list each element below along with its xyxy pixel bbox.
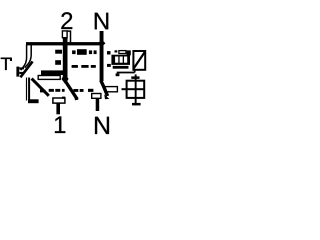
contact pad N lower [92, 94, 101, 99]
linkage coupler box [119, 51, 126, 54]
switch blade N [101, 80, 108, 96]
transformer box [127, 81, 145, 98]
terminal N stem wire [96, 98, 100, 111]
tick beside label T [10, 58, 12, 61]
terminal 1 clamp notch [62, 97, 65, 99]
test wire inner curve [25, 45, 32, 68]
test contact blade [20, 61, 32, 77]
contact pad L [38, 76, 60, 80]
lower conductor double-line wire [26, 78, 30, 101]
pole L conductor wire [63, 38, 68, 81]
terminal label 1 [55, 116, 65, 133]
terminal 2 clamp box [62, 31, 67, 38]
terminal 2 clamp hook wire [67, 31, 70, 43]
test button contact fork [16, 67, 24, 77]
switch blade L tip barb [74, 95, 79, 100]
contact pad N upper [105, 87, 117, 92]
switch blade N tip barb [104, 94, 109, 99]
terminal label N (bottom neutral) [95, 117, 109, 134]
relay box [133, 51, 145, 70]
transformer core vertical inside box [135, 81, 137, 98]
transformer tick top [131, 76, 139, 79]
terminal label 2 [61, 12, 72, 29]
linkage tick [115, 50, 118, 52]
trip coil base bar [113, 66, 129, 69]
linkage row 2 dashes [55, 60, 111, 68]
test wire outer curve [21, 45, 27, 71]
bus rail wire L [26, 42, 102, 45]
transformer center horizontal wire [122, 88, 145, 90]
coil to pad wire [117, 69, 135, 73]
terminal 1 clamp box [53, 98, 65, 103]
switch blade test pole [32, 79, 49, 96]
transformer core vertical wire [135, 74, 137, 105]
test button label T [1, 58, 11, 70]
trip coil winding [111, 55, 130, 65]
bottom contact bar [28, 99, 39, 103]
coil wire pad [116, 73, 120, 76]
pivot node L [61, 74, 68, 84]
linkage row 3 dashes [40, 89, 93, 93]
fixed contact bar L [41, 70, 65, 75]
pole N conductor wire [100, 31, 104, 81]
terminal 1 stem wire [56, 104, 60, 115]
linkage row 1 dashes [55, 49, 110, 55]
transformer tick bottom [132, 103, 141, 106]
relay diagonal [134, 52, 145, 68]
node junction rail/N [98, 40, 106, 47]
connector wedge to relay [127, 50, 131, 55]
terminal label N (top neutral) [95, 13, 108, 30]
switch blade L [65, 81, 77, 100]
